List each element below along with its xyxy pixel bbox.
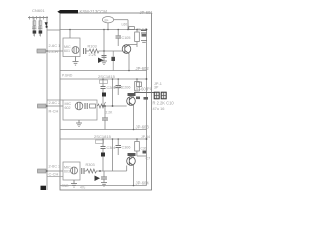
node rail dots ch2: [102, 78, 104, 80]
transistor Q101: [122, 45, 131, 54]
wire ch1 V+ rail: [60, 29, 147, 31]
wire ch2 V+ rail: [60, 78, 147, 80]
svg-text:2SC1815: 2SC1815: [98, 74, 116, 79]
wire: [103, 51, 105, 61]
wire ch3 input: [47, 170, 63, 172]
wire bus to module: [47, 29, 60, 31]
transistor Q201 label blob: [128, 93, 136, 96]
capacitor C303: [101, 147, 106, 149]
capacitor C305: [116, 146, 122, 148]
resistor R105 vertical: [135, 32, 140, 42]
resistor R602: [39, 21, 42, 26]
diode D601: [45, 22, 48, 26]
output coupling C206: [137, 82, 142, 87]
wire: [104, 105, 127, 107]
wire: [102, 157, 104, 172]
node rail dots ch1: [69, 29, 71, 31]
microphone MIC2 element: [75, 102, 83, 110]
wire tail 1: [33, 34, 35, 37]
node: [112, 105, 114, 107]
capacitor C301: [82, 168, 84, 174]
svg-text:L601: L601: [122, 23, 130, 27]
svg-text:47u 16: 47u 16: [153, 106, 165, 111]
svg-text:47u: 47u: [80, 186, 86, 190]
svg-text:R 2.2K C10: R 2.2K C10: [153, 101, 175, 106]
svg-text:R-CH: R-CH: [49, 109, 59, 114]
wire: [117, 30, 119, 37]
connector pin block 1: [154, 92, 159, 99]
capacitor C103 polarized: [98, 58, 104, 64]
svg-text:C304: C304: [107, 146, 116, 150]
microphone MIC1 element: [72, 47, 79, 54]
svg-text:3P: 3P: [154, 86, 159, 90]
svg-text:B+: B+: [105, 18, 109, 22]
microphone MIC3 element: [71, 167, 78, 174]
wire from connector pin 2: [33, 18, 35, 36]
wire rail drop ch1: [69, 30, 71, 39]
wire ch2 ground rail: [60, 129, 147, 131]
resistor R101 input: [37, 49, 48, 53]
capacitor C602: [38, 27, 42, 29]
svg-text:JP-603: JP-603: [136, 125, 150, 130]
wire: [99, 50, 123, 52]
transistor Q101 emitter wire: [128, 54, 130, 71]
module title bar: [57, 10, 78, 14]
ground ch3 under mic: [71, 180, 77, 187]
ground ch3 mid: [101, 183, 107, 187]
svg-text:R303: R303: [86, 163, 95, 167]
ground ch1 under mic: [73, 57, 79, 66]
wire drop x112 ch3: [112, 139, 114, 171]
svg-text:2-6C 3: 2-6C 3: [49, 164, 62, 169]
transistor Q201: [127, 97, 136, 106]
microphone unit MIC2 box: [63, 100, 97, 120]
wire ch3 ground rail: [60, 185, 147, 187]
capacitor C306 blob: [143, 151, 147, 154]
wire: [102, 139, 104, 147]
microphone unit MIC3 box: [63, 162, 80, 180]
resistor R300 input: [37, 170, 47, 172]
svg-text:C30: C30: [141, 146, 147, 150]
svg-text:CN601: CN601: [32, 8, 45, 13]
wire: [102, 79, 104, 87]
svg-text:JP-64: JP-64: [141, 135, 150, 139]
capacitor C105: [116, 36, 122, 38]
wire TP1 drop: [107, 23, 109, 30]
wire ch3 V+ rail: [60, 138, 147, 140]
transistor Q301: [127, 157, 136, 166]
ground ch2 under mic: [76, 120, 82, 127]
wire ch1 input: [47, 50, 63, 52]
resistor R205 vertical: [135, 82, 140, 92]
node rail dots ch3: [102, 138, 104, 140]
svg-text:JP-602: JP-602: [136, 66, 150, 71]
wire: [117, 79, 119, 86]
microphone unit MIC1 box: [63, 38, 80, 57]
capacitor C604 polarized: [39, 30, 43, 33]
node junction bus/ch3: [46, 170, 48, 172]
resistor R103: [89, 49, 99, 53]
resistor R203: [98, 102, 106, 108]
output marks: [136, 97, 140, 100]
svg-text:602: 602: [65, 106, 71, 110]
capacitor C104: [102, 56, 107, 58]
wire: [86, 50, 89, 52]
wire V+ bus: [146, 30, 148, 186]
wire: [104, 106, 106, 118]
svg-text:JP-601: JP-601: [140, 10, 154, 15]
connector CN601: [28, 16, 48, 20]
node junction bus/ch2: [46, 105, 48, 107]
svg-text:C105: C105: [122, 36, 131, 40]
wire ch2 upper: [47, 99, 63, 101]
ground ch1 mid: [101, 61, 107, 65]
capacitor C101: [84, 48, 86, 54]
capacitor C307: [101, 177, 107, 179]
svg-text:KSM-213CCM: KSM-213CCM: [80, 9, 108, 14]
svg-text:2SC1815: 2SC1815: [94, 134, 112, 139]
svg-text:JP-604: JP-604: [136, 181, 150, 186]
wire: [103, 171, 105, 177]
node: [103, 50, 105, 52]
svg-text:L-CH: L-CH: [49, 49, 58, 54]
capacitor C203: [101, 87, 106, 89]
svg-text:603: 603: [64, 169, 70, 173]
svg-text:P1: P1: [147, 87, 151, 91]
ground lug: [41, 186, 47, 190]
wire: [102, 97, 104, 107]
resistor R201: [90, 104, 96, 108]
node: [99, 170, 101, 172]
wire input bus: [46, 18, 48, 190]
wire ch2 input: [47, 105, 63, 107]
svg-text:R103: R103: [88, 44, 97, 48]
connector pin block 2: [161, 92, 166, 99]
capacitor C204 polarized: [102, 93, 106, 97]
node: [146, 78, 148, 80]
test point TP1 ellipse: [102, 17, 113, 23]
node junction bus/ch1: [46, 50, 48, 52]
amplifier module box U1: [60, 13, 152, 190]
svg-text:C306: C306: [122, 146, 131, 150]
capacitor C601: [32, 27, 36, 29]
capacitor C304 polarized: [101, 153, 105, 157]
svg-text:GND: GND: [62, 184, 70, 188]
wire ch1 ground rail: [60, 70, 147, 72]
svg-text:2-6C 2: 2-6C 2: [49, 100, 61, 105]
svg-text:2.2K: 2.2K: [89, 53, 97, 57]
capacitor C106 blob: [142, 34, 147, 37]
inductor L601: [129, 27, 135, 30]
svg-text:C206: C206: [122, 86, 131, 90]
wire output exit: [134, 92, 155, 94]
svg-text:C1 4.7: C1 4.7: [137, 28, 147, 32]
capacitor C207: [102, 118, 108, 120]
resistor R303: [87, 169, 97, 173]
resistor R305 vertical: [135, 142, 140, 152]
node: [146, 138, 148, 140]
svg-text:C-CH: C-CH: [49, 172, 59, 177]
svg-text:P.GND: P.GND: [62, 74, 73, 78]
wire: [136, 30, 138, 33]
wire: [117, 139, 119, 146]
ground ch1 right: [141, 41, 147, 43]
capacitor C107 polarized: [111, 57, 115, 61]
capacitor C603 polarized: [33, 30, 37, 33]
transistor Q201 emitter wire: [133, 106, 135, 130]
wire from TP1: [114, 19, 128, 21]
wire drop x112: [112, 79, 114, 106]
capacitor C201: [85, 103, 87, 109]
svg-text:C7: C7: [146, 157, 151, 161]
capacitor C106: [141, 31, 147, 34]
capacitor C205: [116, 86, 122, 88]
capacitor C308 polarized: [95, 176, 101, 182]
resistor R200 input: [37, 105, 47, 107]
svg-text:2.2K: 2.2K: [106, 110, 114, 114]
svg-text:2-6C 1: 2-6C 1: [49, 43, 61, 48]
wire from connector pin 4: [39, 18, 41, 36]
wire tail 2: [39, 34, 41, 37]
transistor Q301 label blob: [128, 153, 136, 156]
wire x104 riser: [103, 30, 105, 52]
wire: [84, 170, 87, 172]
svg-text:601: 601: [64, 49, 70, 53]
resistor R601: [33, 21, 36, 26]
transistor Q301 emitter wire: [133, 166, 135, 186]
wire ch3 return: [47, 176, 63, 178]
svg-text:R205: R205: [114, 85, 123, 89]
